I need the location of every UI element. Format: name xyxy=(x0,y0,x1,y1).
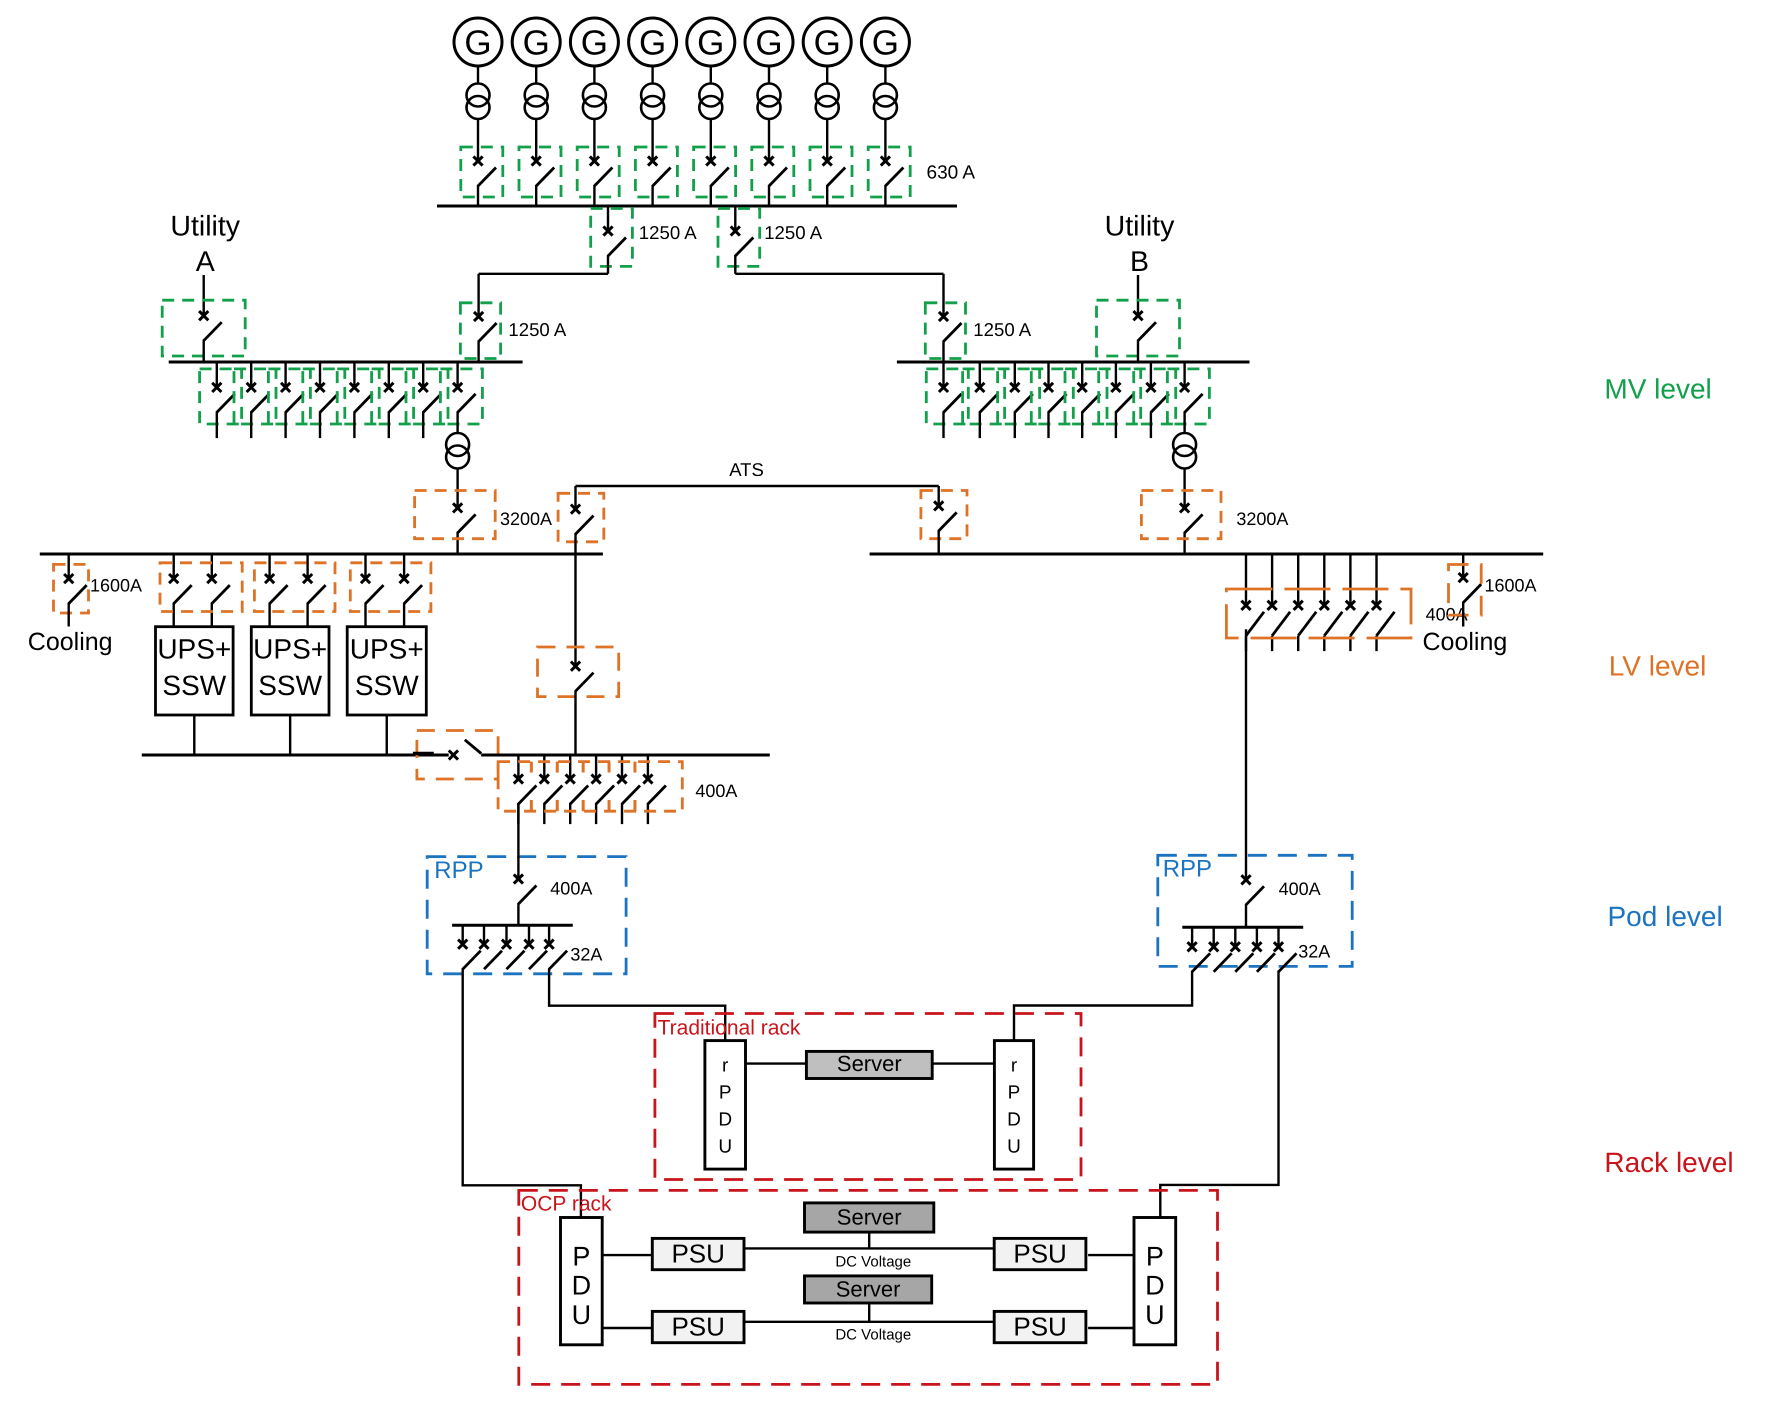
svg-text:1600A: 1600A xyxy=(90,576,142,596)
svg-text:32A: 32A xyxy=(570,945,602,965)
svg-text:r: r xyxy=(1011,1055,1018,1076)
svg-text:D: D xyxy=(718,1109,732,1130)
svg-text:Pod level: Pod level xyxy=(1608,901,1723,932)
svg-text:MV level: MV level xyxy=(1604,374,1711,405)
svg-text:G: G xyxy=(697,24,724,63)
svg-text:U: U xyxy=(1007,1136,1021,1157)
svg-text:G: G xyxy=(814,24,841,63)
svg-text:UPS+: UPS+ xyxy=(157,634,231,665)
svg-text:3200A: 3200A xyxy=(1236,509,1288,529)
svg-text:Traditional rack: Traditional rack xyxy=(658,1017,801,1040)
svg-text:D: D xyxy=(1007,1109,1021,1130)
svg-text:UPS+: UPS+ xyxy=(350,634,424,665)
svg-text:Cooling: Cooling xyxy=(1423,628,1508,656)
svg-text:630 A: 630 A xyxy=(927,163,976,184)
svg-text:DC Voltage: DC Voltage xyxy=(835,1254,911,1271)
svg-text:PSU: PSU xyxy=(671,1239,724,1269)
svg-text:P: P xyxy=(572,1242,590,1272)
svg-text:r: r xyxy=(722,1055,729,1076)
svg-text:G: G xyxy=(639,24,666,63)
svg-text:Cooling: Cooling xyxy=(28,628,113,656)
svg-text:400A: 400A xyxy=(550,878,592,898)
svg-text:3200A: 3200A xyxy=(500,509,552,529)
svg-text:SSW: SSW xyxy=(355,670,419,701)
svg-text:A: A xyxy=(196,246,215,278)
svg-text:D: D xyxy=(1145,1271,1165,1301)
svg-text:Utility: Utility xyxy=(170,211,240,243)
svg-text:1250 A: 1250 A xyxy=(973,319,1032,340)
svg-text:G: G xyxy=(581,24,608,63)
svg-text:OCP rack: OCP rack xyxy=(521,1193,612,1216)
svg-text:400A: 400A xyxy=(1279,879,1321,899)
svg-text:P: P xyxy=(1008,1082,1021,1103)
svg-text:PSU: PSU xyxy=(1013,1239,1066,1269)
svg-text:B: B xyxy=(1130,246,1149,278)
svg-text:1250 A: 1250 A xyxy=(639,222,698,243)
svg-text:DC Voltage: DC Voltage xyxy=(835,1327,911,1344)
svg-text:U: U xyxy=(572,1300,592,1330)
svg-text:RPP: RPP xyxy=(434,857,483,884)
svg-text:ATS: ATS xyxy=(729,459,764,480)
svg-text:P: P xyxy=(719,1082,732,1103)
svg-text:Server: Server xyxy=(837,1205,902,1230)
svg-text:PSU: PSU xyxy=(671,1312,724,1342)
svg-text:32A: 32A xyxy=(1298,942,1330,962)
svg-text:Server: Server xyxy=(837,1051,902,1076)
svg-text:1250 A: 1250 A xyxy=(508,319,567,340)
svg-text:LV level: LV level xyxy=(1609,651,1707,682)
svg-text:Server: Server xyxy=(836,1277,901,1302)
svg-text:D: D xyxy=(572,1271,592,1301)
svg-text:U: U xyxy=(718,1136,732,1157)
svg-text:P: P xyxy=(1146,1242,1164,1272)
svg-text:1250 A: 1250 A xyxy=(764,222,823,243)
svg-text:RPP: RPP xyxy=(1163,856,1212,883)
svg-text:U: U xyxy=(1145,1300,1165,1330)
svg-text:G: G xyxy=(523,24,550,63)
svg-text:1600A: 1600A xyxy=(1485,576,1537,596)
svg-text:400A: 400A xyxy=(695,781,737,801)
svg-text:Rack level: Rack level xyxy=(1604,1147,1733,1178)
svg-text:G: G xyxy=(464,24,491,63)
svg-text:G: G xyxy=(872,24,899,63)
svg-text:UPS+: UPS+ xyxy=(253,634,327,665)
svg-text:SSW: SSW xyxy=(258,670,322,701)
svg-text:SSW: SSW xyxy=(162,670,226,701)
svg-text:G: G xyxy=(755,24,782,63)
svg-text:PSU: PSU xyxy=(1013,1312,1066,1342)
svg-text:Utility: Utility xyxy=(1105,211,1175,243)
